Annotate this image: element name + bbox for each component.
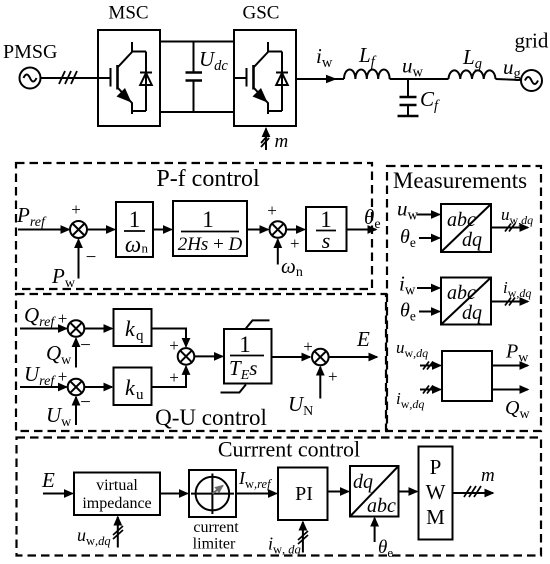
svg-text:+: + (58, 309, 68, 328)
svg-text:M: M (426, 505, 445, 529)
block abc/dq 2 (441, 278, 491, 325)
svg-text:impedance: impedance (82, 495, 151, 512)
wire 1/(2Hs+D) to S2 (247, 229, 268, 231)
wire theta_e into abc/dq 2 (419, 311, 440, 313)
svg-text:abc: abc (367, 495, 396, 517)
wire k_u to SC (right then up) (152, 366, 187, 387)
AC source PMSG (20, 68, 41, 89)
svg-text:+: + (328, 367, 338, 386)
wire L_g to grid (496, 79, 522, 80)
IGBT Q-GSC (234, 42, 268, 114)
feedforward wn arrow (277, 240, 279, 265)
diode D-MSC (132, 52, 152, 112)
wire SC to limiter block (194, 355, 222, 357)
svg-text:limiter: limiter (193, 536, 236, 553)
output u_w,dq arrow with slashes (491, 227, 528, 229)
svg-text:E: E (356, 327, 370, 351)
wire limiter to SD (272, 356, 311, 358)
feedback Q_w arrow (75, 339, 77, 368)
block 1/s (306, 207, 347, 253)
block dq/abc (350, 466, 399, 517)
summing junction SB (68, 379, 85, 396)
svg-text:abc: abc (447, 282, 476, 304)
wire PI to dq/abc (328, 491, 349, 493)
feedback U_w arrow (75, 397, 77, 425)
svg-text:+: + (58, 367, 68, 386)
wire Q_ref input (20, 328, 67, 330)
feedforward U_N arrow (319, 367, 321, 399)
svg-text:P-f control: P-f control (156, 166, 260, 192)
svg-text:abc: abc (447, 209, 476, 231)
dashed box P-f control (16, 163, 372, 289)
output P_w arrow (492, 365, 528, 367)
output Q_w arrow (492, 389, 528, 391)
svg-text:1: 1 (202, 207, 214, 232)
wire u_w,dq into power block with slashes (420, 365, 441, 367)
block abc/dq 1 (441, 204, 491, 252)
svg-text:q: q (136, 328, 144, 344)
output I_w,ref arrow to PI (236, 493, 277, 495)
svg-text:n: n (142, 241, 149, 256)
dashed box Current control (17, 438, 542, 556)
svg-text:+: + (303, 337, 313, 356)
inductor L_g (449, 70, 496, 79)
summing junction S1 (70, 221, 87, 238)
svg-text:E: E (41, 468, 55, 492)
svg-text:−: − (80, 335, 91, 356)
IGBT Q-MSC (111, 42, 133, 114)
slash marks (3-phase) on PMSG wire (59, 71, 77, 84)
wire k_q to SC (right then down) (152, 329, 187, 347)
svg-text:m: m (275, 131, 289, 152)
dashed box Measurements (387, 166, 541, 431)
svg-text:current: current (193, 519, 239, 536)
svg-text:1: 1 (129, 207, 141, 232)
feedback u_w,dq arrow into virtual impedance (117, 517, 119, 548)
AC source grid (521, 70, 542, 91)
modulation input m arrow into GSC (265, 129, 267, 151)
svg-text:dq: dq (462, 229, 482, 251)
svg-text:Q-U control: Q-U control (155, 405, 267, 430)
block 1/wn (116, 202, 153, 257)
output E arrow (329, 356, 377, 358)
wire SB to k_u (84, 386, 112, 388)
block current limiter (189, 470, 236, 517)
svg-text:virtual: virtual (96, 477, 138, 494)
wire L_f to L_g with node u_w (390, 78, 449, 80)
svg-text:PMSG: PMSG (3, 41, 57, 63)
feedback theta_e arrow into dq/abc (374, 518, 376, 542)
wire u_w into abc/dq 1 (417, 214, 440, 216)
converter MSC box (98, 30, 160, 126)
feedback i_w,dq arrow into PI (302, 522, 304, 553)
svg-text:Currrent control: Currrent control (218, 437, 360, 462)
output m arrow (453, 492, 494, 494)
svg-text:m: m (481, 465, 495, 486)
inductor L_f (344, 70, 390, 80)
wire dq/abc to PWM (399, 491, 418, 493)
svg-text:−: − (86, 247, 97, 268)
summing junction S2 (270, 221, 287, 238)
svg-text:k: k (125, 316, 136, 341)
slash marks on m input (261, 134, 269, 147)
svg-text:ω: ω (125, 232, 141, 257)
svg-text:P: P (430, 455, 442, 479)
svg-text:dq: dq (462, 302, 482, 324)
block virtual impedance (74, 473, 160, 516)
output theta_e arrow (347, 229, 377, 231)
svg-text:grid: grid (515, 29, 549, 53)
svg-text:+: + (71, 200, 81, 219)
svg-text:PI: PI (295, 483, 313, 505)
DC bus top rail (160, 41, 234, 43)
wire virtual impedance to current limiter (160, 493, 188, 495)
wire theta_e into abc/dq 1 (419, 237, 440, 239)
converter GSC box (234, 30, 296, 126)
block PWM (419, 447, 453, 540)
feedback P_w arrow (78, 240, 80, 279)
summing junction SD (312, 349, 329, 366)
svg-text:+: + (169, 336, 179, 355)
wire S1 to 1/wn (87, 229, 115, 231)
block k_u (114, 368, 152, 406)
svg-text:s: s (322, 228, 331, 253)
summing junction SC (178, 348, 195, 365)
wire S2 to 1/s (286, 229, 304, 231)
svg-text:u: u (136, 387, 144, 403)
capacitor U_dc (186, 42, 203, 113)
block k_q (114, 309, 152, 346)
capacitor C_f branch (398, 79, 419, 116)
wire i_w,dq into power block with slashes (420, 389, 441, 391)
svg-text:GSC: GSC (243, 3, 280, 24)
block 1/(2Hs+D) (173, 201, 247, 256)
svg-text:2Hs + D: 2Hs + D (178, 234, 243, 255)
wire SA to k_q (84, 328, 112, 330)
svg-text:k: k (125, 375, 136, 400)
wire GSC output with current arrow i_w (296, 78, 344, 80)
block 1/(T_E s) with saturation (221, 320, 272, 392)
svg-text:+: + (267, 201, 277, 220)
summing junction SA (68, 320, 85, 337)
svg-text:+: + (169, 368, 179, 387)
svg-text:W: W (426, 480, 446, 504)
svg-text:+: + (290, 234, 300, 253)
svg-text:−: − (80, 392, 91, 413)
wire P_ref input (18, 229, 69, 231)
DC bus bottom rail (160, 111, 234, 113)
slash marks on m output (464, 486, 481, 497)
block PI (278, 468, 328, 521)
svg-text:MSC: MSC (108, 3, 148, 24)
block power calculation (442, 351, 492, 401)
diode D-GSC (268, 52, 288, 112)
wire i_w into abc/dq 2 (417, 287, 440, 289)
output i_w,dq arrow with slashes (491, 301, 528, 303)
wire 1/wn to 1/(2Hs+D) (153, 229, 172, 231)
svg-text:dq: dq (353, 471, 373, 493)
wire E input (43, 493, 73, 495)
svg-text:1: 1 (239, 332, 251, 357)
wire PMSG to MSC (41, 77, 111, 79)
wire U_ref input (20, 386, 67, 388)
svg-text:Measurements: Measurements (393, 168, 527, 193)
dashed box Q-U control (16, 294, 386, 431)
